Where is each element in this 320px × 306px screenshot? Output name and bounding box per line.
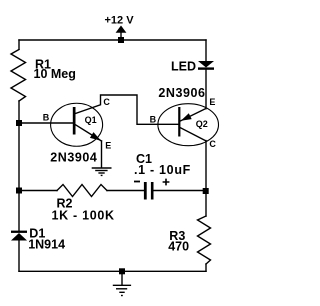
junction dot right rail at C1 — [203, 188, 209, 194]
wire top rail — [19, 39, 206, 41]
wire Q2 collector diagonal — [180, 128, 205, 141]
svg-text:Q2: Q2 — [196, 119, 208, 129]
wire Q1 collector to Q2 base — [75, 95, 178, 124]
wire LED to Q2 emitter — [205, 70, 207, 109]
wire +12V stem — [120, 33, 122, 40]
resistor R1 — [11, 50, 26, 102]
wire right rail upper — [205, 40, 207, 61]
ground symbol bottom center — [113, 285, 131, 295]
wire R2 row left — [19, 190, 57, 192]
svg-text:10 Meg: 10 Meg — [34, 67, 76, 81]
transistor Q2 base bar — [178, 107, 180, 137]
wire left rail middle — [18, 101, 20, 231]
svg-text:B: B — [43, 112, 50, 122]
junction dot bottom rail at ground — [119, 268, 125, 274]
resistor R2 — [57, 185, 107, 197]
svg-text:1K - 100K: 1K - 100K — [52, 208, 115, 222]
svg-text:C: C — [209, 139, 216, 149]
wire Q2 collector to R3 — [205, 141, 207, 216]
transistor Q2 emitter arrow — [181, 113, 192, 121]
diode D1 — [11, 231, 27, 241]
svg-text:.1 - 10uF: .1 - 10uF — [134, 163, 191, 177]
power arrow +12V — [116, 26, 127, 33]
wire ground stem bottom — [121, 271, 123, 285]
wire left rail lower — [18, 241, 20, 272]
wire Q1 emitter to ground — [101, 141, 103, 168]
capacitor C1 plates — [144, 182, 154, 200]
transistor Q1 emitter arrow — [90, 132, 101, 141]
svg-text:LED: LED — [171, 59, 196, 73]
transistor Q1 base bar — [73, 107, 76, 135]
wire Q1 emitter diagonal — [75, 124, 102, 141]
svg-text:C: C — [103, 97, 110, 107]
capacitor C1 minus polarity mark — [134, 181, 140, 183]
transistor Q2 ellipse — [158, 104, 219, 146]
svg-text:1N914: 1N914 — [28, 237, 65, 251]
ground symbol under Q1 emitter — [92, 168, 112, 175]
wire Q1 base — [19, 122, 73, 124]
wire Q2 emitter diagonal — [180, 109, 205, 121]
wire bottom rail — [19, 270, 206, 272]
svg-text:E: E — [209, 97, 215, 107]
svg-text:Q1: Q1 — [85, 115, 97, 125]
wire C1 to right rail — [153, 190, 206, 192]
svg-text:+12 V: +12 V — [105, 15, 135, 27]
junction dot +12V on top rail — [118, 37, 124, 43]
wire right rail lower — [205, 264, 207, 271]
svg-text:2N3904: 2N3904 — [50, 151, 97, 165]
svg-text:2N3906: 2N3906 — [158, 86, 205, 100]
wire left rail upper — [18, 40, 20, 49]
svg-text:E: E — [105, 141, 111, 151]
LED diode symbol — [198, 61, 214, 70]
junction dot left rail at Q1 base — [16, 120, 22, 126]
transistor Q1 ellipse — [51, 103, 103, 146]
svg-text:B: B — [150, 115, 157, 125]
svg-text:470: 470 — [168, 240, 189, 254]
capacitor C1 plus polarity mark — [163, 179, 170, 186]
wire R2 to C1 — [107, 190, 144, 192]
resistor R3 — [198, 216, 211, 264]
junction dot left rail at R2 — [16, 188, 22, 194]
